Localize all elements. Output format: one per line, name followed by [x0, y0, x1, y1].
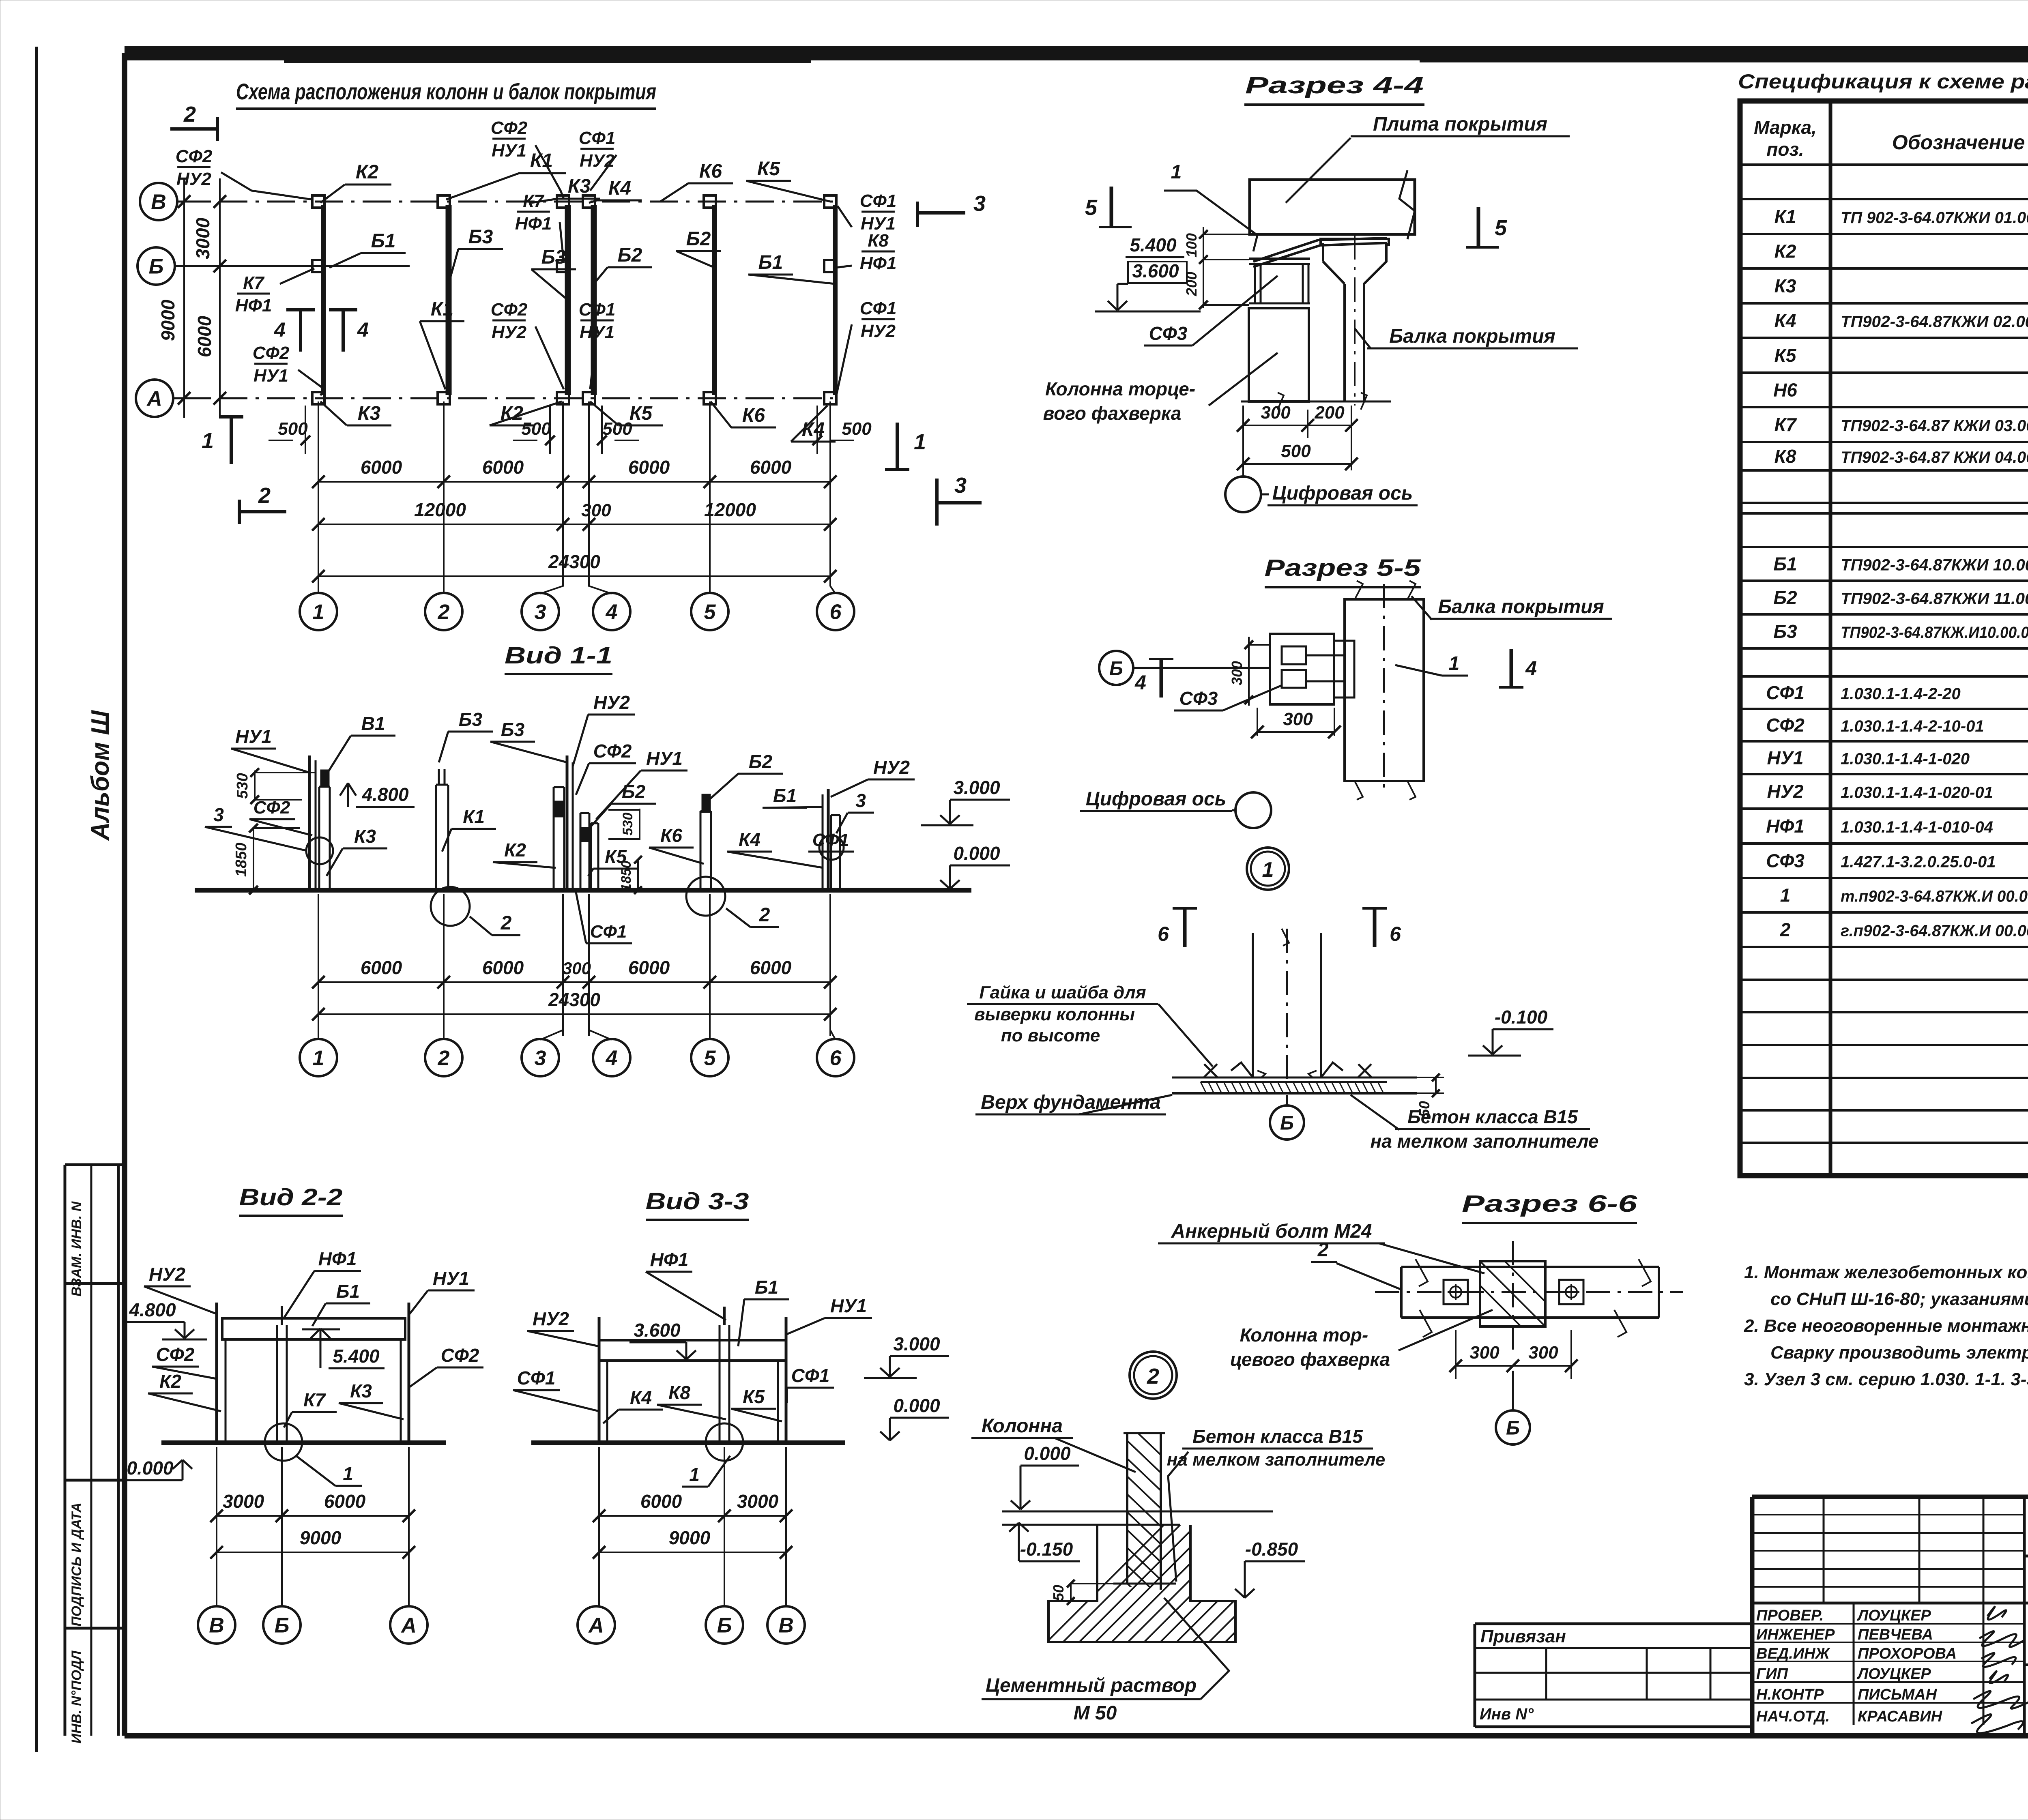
vid1-1 dims below: [318, 894, 319, 1036]
svg-text:ПЕВЧЕВА: ПЕВЧЕВА: [1858, 1626, 1933, 1643]
vid1-1 axis circles: [318, 1014, 319, 1039]
vid2-2 dims: [216, 1447, 217, 1606]
svg-text:К2: К2: [159, 1371, 181, 1392]
svg-text:СФ1: СФ1: [517, 1367, 556, 1389]
svg-text:А: А: [400, 1614, 417, 1638]
dim row 24300: [318, 575, 830, 577]
svg-text:Обозначение: Обозначение: [1892, 131, 2025, 154]
svg-text:А: А: [146, 387, 162, 411]
svg-text:530: 530: [620, 813, 636, 836]
svg-text:СФ2: СФ2: [491, 300, 528, 320]
svg-text:К2: К2: [504, 839, 526, 861]
svg-text:Вид 3-3: Вид 3-3: [646, 1188, 749, 1215]
svg-text:5: 5: [704, 601, 716, 624]
50 dim: [1435, 1077, 1437, 1093]
svg-text:НУ1: НУ1: [646, 748, 683, 769]
СФ3 bracket: [1270, 634, 1334, 704]
svg-text:т.п902-3-64.87КЖ.И 00.00.00.02: т.п902-3-64.87КЖ.И 00.00.00.02: [1841, 888, 2028, 906]
svg-text:-0.850: -0.850: [1245, 1539, 1298, 1560]
dim row 12000 300 12000: [318, 524, 830, 525]
svg-text:НФ1: НФ1: [1766, 816, 1805, 837]
svg-text:5.400: 5.400: [1130, 234, 1177, 255]
svg-text:СФ3: СФ3: [1149, 323, 1188, 344]
svg-text:К8: К8: [868, 231, 889, 251]
svg-text:Б1: Б1: [758, 252, 783, 273]
svg-text:Спецификация к схеме расположе: Спецификация к схеме расположения колонн…: [1738, 70, 2028, 93]
svg-text:4: 4: [357, 318, 369, 341]
svg-text:Схема расположения колонн и ба: Схема расположения колонн и балок покрыт…: [236, 79, 656, 104]
1850 dim vid1-1 left: [253, 827, 254, 890]
svg-text:К7: К7: [243, 273, 265, 293]
vid3-3 columns: [598, 1317, 601, 1443]
svg-text:Анкерный болт М24: Анкерный болт М24: [1171, 1221, 1372, 1242]
svg-text:9000: 9000: [300, 1527, 342, 1548]
svg-text:ЛОУЦКЕР: ЛОУЦКЕР: [1856, 1665, 1931, 1683]
svg-text:Н6: Н6: [1773, 380, 1797, 401]
outer trim line left: [35, 47, 38, 1752]
svg-text:ИНВ. N°ПОДЛ: ИНВ. N°ПОДЛ: [69, 1650, 84, 1744]
svg-text:9000: 9000: [669, 1527, 711, 1548]
bent plate: [1253, 238, 1387, 262]
50 dim foundation: [1070, 1584, 1072, 1601]
axis circle 3: [522, 593, 559, 630]
svg-text:В: В: [778, 1614, 794, 1638]
vid3-3 axis circles: [578, 1606, 615, 1644]
svg-text:3.600: 3.600: [1132, 260, 1179, 281]
section mark 1 left: [230, 417, 233, 464]
svg-text:1.427.1-3.2.0.25.0-01: 1.427.1-3.2.0.25.0-01: [1841, 853, 1996, 871]
svg-text:НУ2: НУ2: [861, 321, 896, 341]
axis circle 2: [425, 593, 462, 630]
svg-text:Б1: Б1: [1773, 554, 1797, 575]
5 section marks: [1110, 187, 1113, 227]
svg-text:НУ2: НУ2: [176, 169, 212, 189]
svg-text:6000: 6000: [482, 957, 524, 978]
svg-text:Марка,: Марка,: [1754, 117, 1817, 138]
column node squares row А: [312, 392, 324, 404]
svg-text:К4: К4: [630, 1387, 652, 1408]
svg-text:К3: К3: [358, 403, 381, 424]
svg-text:Гайка и шайба для: Гайка и шайба для: [979, 983, 1146, 1002]
svg-text:0.000: 0.000: [893, 1395, 940, 1416]
drawing frame: [284, 60, 811, 63]
svg-text:Колонна торце-: Колонна торце-: [1045, 378, 1195, 399]
svg-text:СФ1: СФ1: [860, 298, 897, 318]
svg-text:6000: 6000: [194, 315, 215, 357]
svg-text:Альбом Ш: Альбом Ш: [86, 710, 114, 841]
svg-text:24300: 24300: [548, 551, 600, 572]
300 300 dims bolt plan: [1456, 1365, 1571, 1367]
100/200 vertical dims: [1203, 227, 1204, 308]
svg-text:Вид 1-1: Вид 1-1: [505, 642, 612, 669]
svg-text:Б2: Б2: [686, 228, 711, 250]
svg-text:Б1: Б1: [773, 785, 797, 806]
svg-text:Б: Б: [1109, 658, 1123, 679]
svg-text:ТП902-3-64.87КЖИ 11.00.00.00: ТП902-3-64.87КЖИ 11.00.00.00: [1841, 590, 2028, 608]
spec table grid: [1740, 101, 2028, 1176]
svg-text:2: 2: [258, 483, 271, 508]
svg-text:М 50: М 50: [1074, 1702, 1117, 1724]
svg-text:цевого фахверка: цевого фахверка: [1230, 1349, 1390, 1370]
svg-text:500: 500: [278, 419, 308, 439]
svg-text:6000: 6000: [628, 957, 670, 978]
svg-text:Б1: Б1: [371, 230, 396, 252]
svg-text:4.800: 4.800: [129, 1299, 176, 1320]
svg-text:СФ2: СФ2: [593, 740, 632, 762]
svg-text:К3: К3: [354, 826, 376, 847]
svg-text:Б: Б: [275, 1614, 290, 1638]
svg-text:К3: К3: [1774, 275, 1796, 296]
svg-text:на мелком заполнителе: на мелком заполнителе: [1371, 1131, 1599, 1152]
svg-text:3. Узел 3 см. серию 1.030.: 3. Узел 3 см. серию 1.030. 1-1. 3-3-040.: [1744, 1369, 2028, 1389]
svg-text:500: 500: [842, 419, 872, 439]
svg-text:со СНиП Ш-16-80; указаниями: со СНиП Ш-16-80; указаниями серий 1.423-…: [1770, 1289, 2028, 1309]
svg-text:1.030.1-1.4-2-20: 1.030.1-1.4-2-20: [1841, 685, 1961, 703]
section mark 2 top: [170, 127, 217, 131]
svg-text:К6: К6: [660, 825, 682, 846]
section mark 1 right: [896, 423, 899, 470]
columns at axes 3-4 cluster: [566, 755, 569, 890]
svg-text:200: 200: [1183, 272, 1200, 296]
svg-text:4: 4: [606, 601, 618, 624]
svg-text:К2: К2: [1774, 241, 1796, 262]
svg-text:300: 300: [1469, 1343, 1500, 1363]
svg-text:50: 50: [1050, 1585, 1067, 1601]
signatures squiggles: [1987, 1607, 2006, 1620]
svg-text:1.030.1-1.4-1-020: 1.030.1-1.4-1-020: [1841, 750, 1970, 768]
svg-text:ТП902-3-64.87 КЖИ 04.00.00.00: ТП902-3-64.87 КЖИ 04.00.00.00: [1841, 449, 2028, 466]
svg-text:НАЧ.ОТД.: НАЧ.ОТД.: [1756, 1708, 1830, 1725]
svg-text:2: 2: [1317, 1239, 1329, 1261]
svg-text:1850: 1850: [619, 861, 634, 891]
dim row 6000s: [318, 481, 830, 483]
axis circle 5: [691, 593, 728, 630]
svg-text:г.п902-3-64.87КЖ.И 00.00.00.01: г.п902-3-64.87КЖ.И 00.00.00.01: [1841, 922, 2028, 940]
svg-text:6000: 6000: [361, 457, 402, 478]
svg-text:Балка покрытия: Балка покрытия: [1389, 326, 1555, 347]
svg-text:Б: Б: [1280, 1112, 1294, 1134]
svg-text:Колонна: Колонна: [982, 1415, 1063, 1437]
6 section marks: [1183, 908, 1187, 947]
svg-text:СФ2: СФ2: [491, 118, 528, 138]
svg-text:ПИСЬМАН: ПИСЬМАН: [1858, 1686, 1938, 1703]
column above base: [1252, 933, 1254, 1077]
svg-text:1. Монтаж железобетонных ко: 1. Монтаж железобетонных конструкций осу…: [1744, 1262, 2028, 1282]
svg-text:1: 1: [313, 1047, 324, 1070]
svg-text:300: 300: [563, 959, 591, 978]
svg-text:СФ1: СФ1: [579, 128, 616, 148]
svg-text:3: 3: [954, 473, 967, 498]
svg-text:Плита покрытия: Плита покрытия: [1373, 114, 1547, 135]
svg-text:СФ1: СФ1: [791, 1365, 830, 1386]
beams on axes (plan): [321, 205, 326, 395]
svg-text:Балка покрытия: Балка покрытия: [1438, 596, 1604, 618]
svg-text:6: 6: [830, 1047, 842, 1070]
vid3-3 dims: [598, 1447, 600, 1606]
svg-text:Б3: Б3: [501, 719, 525, 740]
svg-text:на мелком заполнителе: на мелком заполнителе: [1167, 1450, 1385, 1470]
svg-text:К7: К7: [523, 191, 545, 211]
svg-text:СФ2: СФ2: [253, 798, 290, 818]
svg-text:300: 300: [1528, 1343, 1558, 1363]
svg-text:К5: К5: [1774, 345, 1797, 366]
svg-text:НУ2: НУ2: [580, 151, 615, 171]
svg-text:выверки колонны: выверки колонны: [974, 1004, 1135, 1024]
svg-text:К1: К1: [530, 150, 553, 172]
cap of fachwerk column: [1249, 258, 1310, 260]
svg-text:НУ1: НУ1: [235, 726, 272, 747]
vid3-3 roof beam Б1: [599, 1340, 786, 1361]
axis circle 6: [817, 593, 854, 630]
svg-text:К6: К6: [699, 161, 722, 182]
svg-text:Цифровая ось: Цифровая ось: [1086, 788, 1227, 810]
svg-text:2: 2: [501, 912, 512, 934]
svg-text:НУ2: НУ2: [149, 1264, 185, 1285]
svg-text:5.400: 5.400: [333, 1346, 380, 1367]
svg-text:Цифровая ось: Цифровая ось: [1272, 483, 1413, 504]
svg-text:Б: Б: [717, 1614, 732, 1638]
svg-text:вого фахверка: вого фахверка: [1043, 403, 1182, 424]
svg-text:1: 1: [914, 430, 926, 454]
svg-text:6000: 6000: [361, 957, 402, 978]
axis circle Б: [137, 247, 175, 285]
svg-text:Инв N°: Инв N°: [1480, 1705, 1534, 1723]
svg-text:К5: К5: [743, 1386, 765, 1407]
vid2-2 axis circles: [198, 1606, 235, 1644]
svg-text:4.800: 4.800: [361, 784, 409, 805]
svg-text:К4: К4: [608, 178, 631, 199]
column node squares row В: [312, 195, 324, 208]
svg-text:24300: 24300: [548, 989, 600, 1010]
svg-text:3: 3: [973, 191, 986, 216]
530 dim mid: [639, 809, 640, 840]
svg-text:Б1: Б1: [336, 1281, 360, 1302]
svg-text:100: 100: [1183, 233, 1200, 258]
tsifrovaya os 4-4: [1225, 476, 1261, 512]
svg-text:2: 2: [759, 904, 770, 926]
svg-text:3000: 3000: [192, 217, 213, 259]
svg-text:НФ1: НФ1: [235, 296, 272, 315]
svg-text:12000: 12000: [414, 499, 466, 520]
svg-text:НУ1: НУ1: [830, 1295, 867, 1316]
svg-text:0.000: 0.000: [1024, 1443, 1071, 1464]
svg-text:Сварку производить электрода: Сварку производить электродами типа Э42А…: [1770, 1343, 2028, 1363]
svg-text:К2: К2: [356, 161, 379, 183]
svg-text:В: В: [209, 1614, 224, 1638]
svg-text:6000: 6000: [324, 1491, 366, 1512]
axis circle 1 double: [1247, 848, 1289, 890]
svg-text:ПОДПИСЬ И ДАТА: ПОДПИСЬ И ДАТА: [69, 1502, 84, 1627]
svg-text:3: 3: [213, 804, 224, 825]
svg-text:500: 500: [521, 419, 551, 439]
column at axis2 (К1): [435, 785, 437, 890]
svg-text:К6: К6: [742, 405, 765, 426]
left mini table: [1752, 1514, 2024, 1515]
svg-text:1: 1: [1262, 858, 1274, 882]
svg-text:4: 4: [606, 1047, 618, 1070]
svg-text:НФ1: НФ1: [650, 1249, 689, 1270]
svg-text:Б: Б: [1506, 1417, 1520, 1439]
svg-text:Б3: Б3: [541, 247, 566, 268]
uzel 2 circle: [1130, 1352, 1177, 1399]
svg-text:НУ2: НУ2: [492, 322, 527, 342]
svg-text:поз.: поз.: [1766, 139, 1804, 160]
svg-text:Б2: Б2: [1773, 587, 1797, 608]
svg-text:К1: К1: [463, 806, 485, 827]
section mark 2 bottom: [239, 510, 286, 513]
svg-text:1850: 1850: [233, 843, 250, 877]
svg-text:300: 300: [1283, 709, 1313, 729]
svg-text:НУ1: НУ1: [492, 141, 526, 161]
svg-text:К4: К4: [1774, 310, 1796, 331]
column at axis6 cluster: [822, 794, 824, 890]
left vertical dim 3000/6000: [219, 178, 221, 418]
slab: [1250, 180, 1415, 234]
beam pokrytiya section: [1321, 239, 1389, 401]
svg-text:НФ1: НФ1: [860, 253, 897, 273]
svg-text:3.000: 3.000: [893, 1333, 940, 1354]
svg-text:К5: К5: [629, 403, 653, 424]
column at axis5 (К6): [700, 811, 702, 890]
foundation block: [1048, 1525, 1235, 1642]
svg-text:НФ1: НФ1: [318, 1248, 357, 1269]
fachwerk column: [1249, 308, 1309, 401]
axis circle B: [140, 183, 177, 220]
svg-text:СФ1: СФ1: [1766, 682, 1805, 703]
svg-text:Б2: Б2: [622, 781, 646, 802]
bottom axis circles 1-6: [318, 576, 319, 593]
svg-text:3.600: 3.600: [634, 1320, 681, 1341]
svg-text:СФ1: СФ1: [812, 830, 849, 850]
svg-text:Б3: Б3: [459, 709, 483, 730]
svg-text:-0.150: -0.150: [1020, 1539, 1073, 1560]
svg-text:6000: 6000: [750, 457, 792, 478]
svg-text:0.000: 0.000: [127, 1457, 174, 1479]
svg-text:К5: К5: [757, 158, 781, 180]
svg-text:ГИП: ГИП: [1756, 1665, 1788, 1683]
svg-text:ПРОХОРОВА: ПРОХОРОВА: [1858, 1645, 1957, 1662]
svg-text:СФ2: СФ2: [441, 1345, 479, 1366]
svg-text:2: 2: [438, 1047, 450, 1070]
svg-text:Колонна тор-: Колонна тор-: [1240, 1324, 1368, 1346]
svg-text:6: 6: [830, 601, 842, 624]
bolt plan detail: [1401, 1266, 1659, 1268]
svg-text:3: 3: [535, 1047, 546, 1070]
svg-text:СФ1: СФ1: [579, 300, 616, 320]
sidebar cells: [64, 1165, 67, 1736]
bottom break line: [1241, 401, 1391, 403]
svg-text:К7: К7: [1774, 414, 1797, 435]
svg-text:3: 3: [855, 790, 866, 811]
vid 1-1 ground: [195, 888, 971, 893]
vid2-2 ground: [161, 1440, 446, 1445]
svg-text:НУ2: НУ2: [873, 757, 910, 778]
svg-text:300: 300: [581, 500, 611, 520]
svg-text:НУ2: НУ2: [1767, 781, 1804, 802]
svg-text:Разрез 6-6: Разрез 6-6: [1462, 1191, 1637, 1217]
svg-text:530: 530: [234, 773, 251, 798]
svg-text:ВЗАМ. ИНВ. N: ВЗАМ. ИНВ. N: [69, 1201, 84, 1296]
signatures rows: [1752, 1623, 2024, 1625]
base plate detail: [1172, 1077, 1417, 1079]
svg-text:2: 2: [1780, 919, 1791, 940]
beam vertical (plan of beam): [1345, 599, 1424, 781]
Б circle 5-5: [1099, 651, 1133, 685]
svg-text:Разрез 4-4: Разрез 4-4: [1245, 72, 1424, 99]
svg-text:НФ1: НФ1: [515, 214, 552, 234]
svg-text:СФ1: СФ1: [590, 922, 627, 942]
svg-text:НУ1: НУ1: [253, 366, 288, 386]
svg-text:1: 1: [1171, 161, 1182, 183]
svg-text:6000: 6000: [750, 957, 792, 978]
dims 300 200 500: [1242, 406, 1244, 470]
svg-text:К1: К1: [431, 298, 453, 320]
svg-text:200: 200: [1314, 403, 1345, 423]
svg-text:ЛОУЦКЕР: ЛОУЦКЕР: [1856, 1607, 1931, 1624]
TP cell: [2024, 1555, 2028, 1558]
svg-text:0.000: 0.000: [953, 843, 1000, 864]
section mark 3 top-right: [916, 202, 919, 227]
anchor x marks: [1204, 1064, 1217, 1077]
svg-text:К7: К7: [303, 1389, 326, 1410]
svg-text:СФ2: СФ2: [1766, 715, 1805, 736]
svg-text:6: 6: [1158, 923, 1169, 945]
svg-text:НУ1: НУ1: [1767, 747, 1804, 768]
svg-text:ТП902-3-64.87КЖИ 10.00.00.00: ТП902-3-64.87КЖИ 10.00.00.00: [1841, 556, 2028, 574]
svg-text:4: 4: [274, 318, 286, 341]
svg-text:СФ2: СФ2: [176, 146, 213, 166]
svg-text:СФ2: СФ2: [253, 343, 290, 363]
column at axis1 (К3/СФ2/НУ1): [308, 755, 311, 890]
svg-text:по высоте: по высоте: [1001, 1026, 1100, 1045]
svg-text:2. Все неоговоренные монта: 2. Все неоговоренные монтажные швы прини…: [1744, 1316, 2028, 1336]
svg-text:КРАСАВИН: КРАСАВИН: [1858, 1708, 1943, 1725]
svg-text:1.030.1-1.4-1-010-04: 1.030.1-1.4-1-010-04: [1841, 818, 1993, 836]
svg-text:4: 4: [1134, 671, 1146, 694]
svg-text:Б: Б: [149, 255, 164, 279]
svg-text:-0.100: -0.100: [1495, 1007, 1548, 1028]
svg-text:5: 5: [1085, 195, 1098, 220]
svg-text:1.030.1-1.4-2-10-01: 1.030.1-1.4-2-10-01: [1841, 717, 1984, 735]
svg-text:3000: 3000: [737, 1491, 779, 1512]
svg-text:СФ2: СФ2: [156, 1344, 195, 1365]
vid2-2 roof beam Б1: [222, 1318, 405, 1339]
axis circle А: [136, 380, 173, 417]
svg-text:5: 5: [704, 1047, 716, 1070]
svg-text:1: 1: [689, 1464, 700, 1485]
row В axis line: [177, 201, 211, 203]
title block main: [1752, 1495, 2028, 1499]
svg-text:6000: 6000: [628, 457, 670, 478]
svg-text:1: 1: [1449, 653, 1460, 674]
svg-text:ТП902-3-64.87КЖ.И10.00.00.00-0: ТП902-3-64.87КЖ.И10.00.00.00-01: [1841, 624, 2028, 642]
privyazan table: [1475, 1623, 1752, 1625]
vid2-2 columns: [215, 1303, 218, 1443]
svg-text:К8: К8: [1774, 446, 1796, 467]
section mark 3 bottom-right: [935, 479, 939, 526]
svg-text:4: 4: [1525, 657, 1537, 680]
svg-text:Н.КОНТР: Н.КОНТР: [1756, 1686, 1824, 1703]
svg-text:Цементный раствор: Цементный раствор: [986, 1675, 1197, 1696]
svg-text:В: В: [151, 191, 166, 214]
svg-text:ТП 902-3-64.07КЖИ 01.00.00.00: ТП 902-3-64.07КЖИ 01.00.00.00: [1841, 209, 2028, 227]
svg-text:1: 1: [313, 601, 324, 624]
svg-text:2: 2: [183, 102, 196, 127]
svg-text:ИНЖЕНЕР: ИНЖЕНЕР: [1756, 1626, 1835, 1643]
Б circle bolt plan: [1512, 1371, 1514, 1410]
530 dim vid1-1 left: [254, 770, 256, 801]
svg-text:300: 300: [1229, 661, 1245, 685]
